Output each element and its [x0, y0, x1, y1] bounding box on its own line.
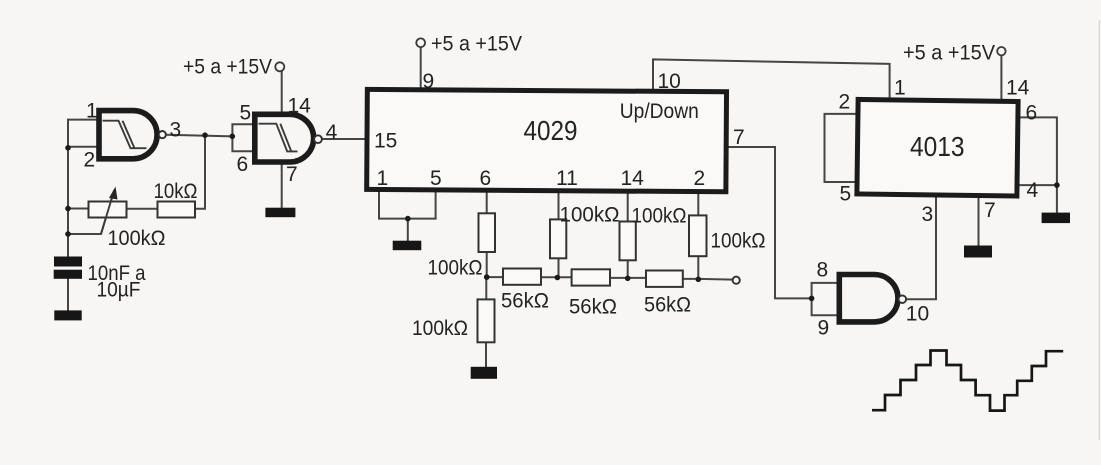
svg-text:4013: 4013	[910, 131, 965, 162]
node pot wiper	[65, 231, 71, 237]
output bubble U1B	[314, 135, 322, 143]
NAND schmitt gate U1B	[255, 114, 314, 162]
wire: 4029 pin 14 to ladder	[627, 192, 629, 278]
wire: 4029 pin 10 to 4013 pin 1	[653, 59, 890, 99]
ground 4013 pin7	[964, 246, 992, 258]
wire: 4029 pin 11 to ladder	[558, 192, 560, 278]
IC U2 4029	[367, 89, 727, 191]
svg-text:10µF: 10µF	[97, 279, 141, 302]
svg-text:56kΩ: 56kΩ	[569, 295, 617, 318]
svg-text:14: 14	[1006, 77, 1030, 100]
svg-text:5: 5	[840, 182, 852, 205]
wire: node A to lower 100k and ground	[485, 277, 487, 367]
wire: nand3 input bracket	[812, 283, 837, 315]
svg-text:5: 5	[430, 167, 442, 190]
node pot top	[65, 206, 71, 212]
resistor R2 100k (pin6)	[479, 213, 496, 252]
svg-text:6: 6	[480, 167, 492, 190]
resistor R8 56k	[646, 271, 683, 287]
ground gate1 RC	[54, 310, 81, 320]
node 4029 pins 1-5 gnd	[405, 216, 411, 222]
wire: gate2 Vdd pin 14	[281, 72, 283, 115]
svg-text:+5 a +15V: +5 a +15V	[903, 42, 995, 65]
node C ladder	[625, 276, 631, 282]
capacitor C1 plates	[54, 257, 82, 279]
output bubble U1A	[159, 131, 166, 138]
NAND gate U1C	[839, 275, 898, 322]
ground gate2 pin7	[265, 208, 295, 218]
wire: capacitor to ground	[67, 279, 69, 311]
resistor R4 100k (pin14)	[620, 222, 636, 261]
node D ladder	[696, 277, 702, 283]
svg-text:6: 6	[1026, 102, 1038, 125]
svg-text:2: 2	[839, 91, 851, 114]
svg-text:3: 3	[922, 203, 934, 226]
svg-text:4: 4	[326, 121, 338, 144]
staircase waveform	[872, 351, 1063, 411]
svg-text:6: 6	[237, 153, 249, 176]
wire: 4013 pin 14 supply	[1000, 56, 1002, 99]
wire: pot wiper tap	[68, 191, 114, 234]
supply terminal 4029	[416, 38, 425, 47]
resistor R1 10k	[158, 202, 196, 218]
svg-text:100kΩ: 100kΩ	[560, 204, 620, 227]
svg-text:7: 7	[733, 126, 745, 149]
output bubble U1C	[899, 295, 907, 303]
node B ladder	[555, 275, 561, 281]
node gate1 inputs	[65, 145, 71, 151]
node A ladder	[484, 274, 490, 280]
svg-text:10: 10	[658, 70, 681, 93]
wire: 4029 pin 7 to nand gate input	[728, 147, 812, 298]
svg-text:14: 14	[621, 167, 645, 190]
wire: gate1 input bracket and RC rail	[68, 120, 97, 257]
svg-text:100kΩ: 100kΩ	[108, 227, 166, 250]
wire: gate2 gnd pin 7	[281, 165, 283, 208]
node nand3 input	[809, 296, 815, 302]
schmitt symbol U1A	[103, 121, 147, 149]
ground ladder	[471, 367, 497, 379]
svg-text:10: 10	[906, 302, 929, 325]
svg-text:1: 1	[86, 100, 98, 123]
svg-text:10kΩ: 10kΩ	[154, 180, 198, 203]
node feedback tap	[202, 132, 208, 138]
wire: rail to potentiometer	[68, 208, 89, 210]
wire: 4029 pins 1,5 to ground	[379, 192, 436, 241]
wire: 4029 pin 2 to ladder	[697, 192, 699, 279]
node 4013 pin4	[1054, 182, 1060, 188]
IC U3 4013	[857, 99, 1018, 196]
resistor R7 56k	[572, 269, 610, 285]
wire: 4013 pins 6-4 bracket to ground	[1019, 117, 1057, 212]
svg-text:7: 7	[984, 199, 996, 222]
wire: 10k resistor up to output node	[195, 135, 205, 209]
svg-text:2: 2	[694, 167, 706, 190]
ground 4013 pin4	[1042, 213, 1070, 224]
svg-text:9: 9	[818, 317, 830, 340]
NAND schmitt gate U1A	[99, 111, 157, 159]
wire: pot to 10k resistor	[127, 208, 158, 210]
svg-text:+5 a +15V: +5 a +15V	[183, 56, 272, 79]
svg-text:3: 3	[170, 118, 182, 141]
svg-text:1: 1	[894, 77, 906, 100]
wire: gate2 output to 4029 pin 15	[322, 138, 365, 140]
resistor R5 100k (pin2)	[689, 215, 707, 256]
supply terminal gate2	[275, 62, 284, 71]
svg-text:100kΩ: 100kΩ	[632, 205, 687, 228]
wire: gate1 output to gate2 input	[166, 135, 232, 137]
svg-text:11: 11	[556, 167, 578, 190]
wire: gate2 input bracket	[232, 124, 253, 151]
wire: ladder horizontal segments	[487, 277, 733, 280]
wire: 4013 pin 3 to nand output	[906, 197, 936, 300]
potentiometer P1 100k	[89, 187, 127, 235]
svg-text:7: 7	[286, 163, 298, 186]
svg-text:8: 8	[817, 259, 829, 282]
schmitt symbol U1B	[259, 124, 298, 152]
svg-text:56kΩ: 56kΩ	[501, 289, 549, 312]
ground 4029 pins1,5	[393, 241, 422, 251]
wire: 4029 pin 6 to R ladder	[486, 192, 488, 277]
svg-text:+5 a +15V: +5 a +15V	[431, 33, 522, 56]
resistor R3 100k (pin11)	[550, 219, 566, 258]
resistor R6 56k	[503, 269, 541, 285]
scan page-edge artifact	[1099, 20, 1100, 440]
svg-text:1: 1	[377, 167, 389, 190]
output terminal circle	[733, 277, 740, 284]
svg-text:4029: 4029	[524, 115, 578, 146]
svg-text:15: 15	[374, 130, 397, 153]
wire: 4013 pin 7 to ground	[978, 197, 980, 246]
svg-text:56kΩ: 56kΩ	[644, 293, 691, 316]
supply terminal 4013	[997, 47, 1005, 55]
svg-text:9: 9	[423, 70, 435, 93]
node gate2 input	[230, 134, 236, 140]
svg-text:14: 14	[288, 94, 312, 117]
svg-text:100kΩ: 100kΩ	[412, 317, 468, 340]
resistor R9 100k (node A to gnd)	[478, 299, 495, 342]
svg-text:Up/Down: Up/Down	[620, 100, 699, 123]
wire: 4029 pin 9 supply	[420, 47, 422, 89]
svg-text:100kΩ: 100kΩ	[428, 257, 483, 280]
svg-text:5: 5	[240, 101, 252, 124]
svg-text:4: 4	[1027, 179, 1039, 202]
svg-text:2: 2	[84, 149, 96, 172]
wire: 4013 pins 2-5 bracket	[825, 114, 856, 182]
svg-text:100kΩ: 100kΩ	[711, 230, 766, 253]
